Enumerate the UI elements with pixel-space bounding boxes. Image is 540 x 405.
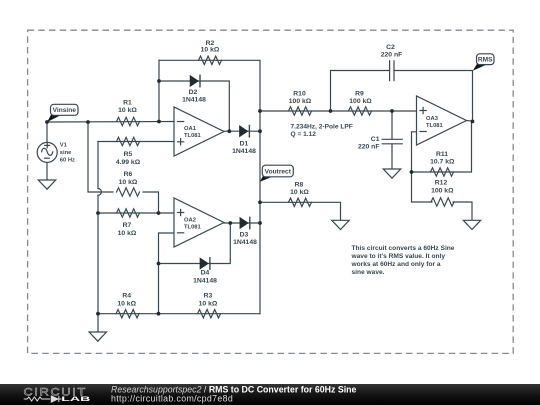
svg-text:R11: R11	[436, 151, 448, 158]
svg-text:4.99 kΩ: 4.99 kΩ	[116, 159, 141, 166]
svg-text:R7: R7	[123, 222, 132, 229]
svg-text:10 kΩ: 10 kΩ	[118, 107, 137, 114]
svg-text:10 kΩ: 10 kΩ	[118, 230, 137, 237]
svg-text:This circuit converts a 60Hz S: This circuit converts a 60Hz Sine	[352, 245, 455, 252]
svg-text:10 kΩ: 10 kΩ	[117, 300, 136, 307]
svg-text:C2: C2	[386, 44, 395, 51]
svg-text:R1: R1	[123, 100, 132, 107]
svg-text:LAB: LAB	[61, 396, 90, 403]
svg-text:D4: D4	[201, 270, 210, 277]
svg-text:D1: D1	[240, 140, 249, 147]
svg-text:220 nF: 220 nF	[358, 144, 380, 151]
svg-text:sine: sine	[60, 150, 72, 156]
svg-text:10 kΩ: 10 kΩ	[201, 47, 220, 54]
svg-text:220 nF: 220 nF	[381, 52, 403, 59]
svg-text:R3: R3	[204, 293, 213, 300]
svg-text:1N4148: 1N4148	[232, 148, 256, 155]
svg-text:works at 60Hz and only for a: works at 60Hz and only for a	[351, 261, 441, 268]
svg-text:TL081: TL081	[184, 133, 202, 139]
svg-text:R5: R5	[124, 151, 133, 158]
svg-text:100 kΩ: 100 kΩ	[349, 98, 372, 105]
svg-text:OA2: OA2	[184, 217, 196, 223]
svg-text:10 kΩ: 10 kΩ	[199, 300, 218, 307]
svg-text:60 Hz: 60 Hz	[60, 158, 75, 164]
svg-text:1N4148: 1N4148	[193, 278, 217, 285]
svg-text:10 kΩ: 10 kΩ	[119, 179, 138, 186]
svg-text:R12: R12	[435, 179, 448, 186]
svg-text:http://circuitlab.com/cpd7e8d: http://circuitlab.com/cpd7e8d	[111, 393, 233, 403]
svg-text:10.7 kΩ: 10.7 kΩ	[430, 159, 455, 166]
svg-text:RMS: RMS	[478, 57, 493, 64]
svg-text:wave to it's RMS value. It onl: wave to it's RMS value. It only	[351, 253, 446, 260]
svg-text:R6: R6	[124, 171, 133, 178]
svg-text:TL081: TL081	[184, 225, 202, 231]
svg-text:100 kΩ: 100 kΩ	[289, 98, 312, 105]
svg-text:100 kΩ: 100 kΩ	[431, 187, 454, 194]
svg-text:R8: R8	[295, 181, 304, 188]
svg-text:Voutrect: Voutrect	[265, 168, 292, 175]
svg-text:10 kΩ: 10 kΩ	[290, 189, 309, 196]
svg-text:OA1: OA1	[184, 126, 197, 132]
svg-text:R4: R4	[122, 293, 131, 300]
svg-text:C1: C1	[371, 136, 380, 143]
svg-text:R9: R9	[355, 90, 364, 97]
svg-text:D3: D3	[240, 232, 249, 239]
svg-text:sine wave.: sine wave.	[352, 269, 385, 276]
svg-text:R10: R10	[293, 90, 306, 97]
svg-text:1N4148: 1N4148	[233, 239, 257, 246]
svg-text:TL081: TL081	[426, 123, 444, 129]
svg-text:1N4148: 1N4148	[182, 97, 206, 104]
svg-text:Vinsine: Vinsine	[53, 107, 77, 114]
svg-text:OA3: OA3	[426, 116, 439, 122]
svg-text:V1: V1	[60, 143, 68, 149]
svg-text:Q = 1.12: Q = 1.12	[291, 131, 317, 138]
svg-text:D2: D2	[189, 89, 198, 96]
svg-text:7.234Hz, 2-Pole LPF: 7.234Hz, 2-Pole LPF	[291, 124, 353, 131]
